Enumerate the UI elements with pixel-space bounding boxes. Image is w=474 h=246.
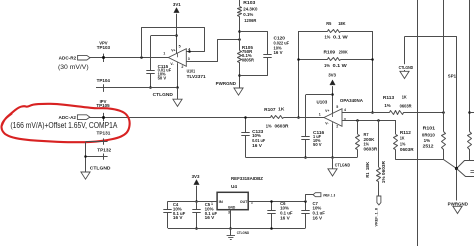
svg-text:1206R: 1206R	[244, 18, 257, 23]
wire feedback right rail	[372, 31, 374, 112]
svg-text:1K: 1K	[278, 107, 285, 112]
resistor R107	[271, 116, 284, 119]
svg-text:3: 3	[228, 211, 230, 215]
svg-text:PWRGND: PWRGND	[216, 81, 236, 86]
svg-text:CTLGND: CTLGND	[237, 230, 250, 235]
resistor shunt b	[468, 132, 472, 150]
resistor R103	[239, 0, 241, 6]
svg-text:TLV2371: TLV2371	[187, 74, 207, 79]
svg-text:R109: R109	[324, 50, 336, 55]
wire bottom rail	[168, 228, 306, 230]
node VREF_1_8 tag (horizontal)	[306, 195, 314, 202]
op-amp U103 OPA340NA	[324, 109, 342, 127]
wire SP1 ground tie	[405, 37, 457, 207]
capacitor C7	[305, 201, 307, 210]
svg-text:V+: V+	[325, 109, 329, 113]
svg-text:TP131: TP131	[97, 131, 112, 136]
svg-text:TP104: TP104	[97, 78, 111, 83]
capacitor C4	[167, 201, 169, 210]
node divider top	[238, 30, 241, 33]
annotation red circle	[2, 104, 130, 142]
svg-text:1%: 1%	[266, 124, 272, 129]
svg-text:R5: R5	[326, 21, 332, 26]
svg-text:R107: R107	[264, 107, 276, 112]
ground CTLGND right	[404, 37, 406, 72]
wire feedback left rail	[298, 31, 300, 117]
ground CTLGND U101	[177, 88, 179, 100]
svg-text:5: 5	[179, 44, 181, 48]
wire tp ground drop	[85, 142, 87, 172]
svg-text:0805R: 0805R	[242, 57, 255, 62]
wire U4 output rail	[248, 201, 305, 203]
svg-text:16 V: 16 V	[205, 215, 215, 220]
wire IPV row (ADC-A2 to U103 output)	[89, 117, 271, 119]
capacitor C5	[196, 201, 198, 210]
svg-text:(166 mV/A)+Offset 1.65V, COMP1: (166 mV/A)+Offset 1.65V, COMP1A	[10, 121, 118, 130]
svg-text:16 V: 16 V	[280, 215, 290, 220]
svg-text:16 V: 16 V	[252, 143, 262, 148]
svg-text:2: 2	[181, 65, 183, 69]
svg-text:0603R: 0603R	[400, 147, 415, 152]
svg-text:VREF_1_8: VREF_1_8	[323, 193, 335, 197]
svg-text:0603R: 0603R	[400, 104, 413, 109]
capacitor C123	[245, 117, 247, 133]
svg-text:U4: U4	[231, 184, 238, 189]
svg-text:1%: 1%	[325, 34, 331, 39]
svg-text:1% 0603R: 1% 0603R	[381, 161, 386, 183]
svg-text:24.3K0: 24.3K0	[243, 6, 258, 11]
svg-text:REF3318AIDBZ: REF3318AIDBZ	[231, 176, 263, 181]
resistor R105	[238, 51, 242, 63]
svg-text:VREF_1_8: VREF_1_8	[375, 208, 379, 227]
wire ADC-R2 output net	[90, 57, 169, 59]
wire U103 V- to ground rail	[332, 124, 334, 158]
svg-text:R101: R101	[423, 125, 436, 130]
svg-text:IN: IN	[219, 199, 223, 204]
wire ctlgnd rail U103	[246, 157, 358, 159]
wire U101 V- to ground rail	[177, 64, 179, 88]
svg-text:1%: 1%	[384, 103, 390, 108]
ground CTLGND U103	[332, 158, 334, 169]
svg-text:ADC-R2: ADC-R2	[59, 55, 77, 60]
svg-text:200K: 200K	[339, 50, 349, 55]
svg-text:ADC-A2: ADC-A2	[59, 115, 77, 120]
wire U4 gnd stub	[230, 210, 232, 228]
svg-text:OUT: OUT	[240, 199, 248, 204]
svg-text:1: 1	[163, 52, 165, 56]
svg-text:R103: R103	[243, 0, 256, 5]
wire vertical bus 3 / shunt R101b	[469, 0, 471, 132]
wire U103 pin4 feedback row	[342, 112, 390, 114]
svg-text:16 V: 16 V	[313, 215, 323, 220]
wire U103 pin3 row	[342, 120, 395, 122]
wire vertical bus 1	[417, 0, 419, 246]
svg-text:18K: 18K	[338, 21, 346, 26]
svg-text:(30 mV/V): (30 mV/V)	[58, 65, 89, 71]
svg-text:5: 5	[336, 105, 338, 109]
svg-text:1%: 1%	[400, 141, 406, 146]
resistor R101 (shunt a)	[442, 132, 446, 150]
testpoint TP105	[103, 113, 105, 121]
svg-text:V-: V-	[170, 62, 173, 66]
node ADC-A2 tag	[77, 115, 89, 120]
svg-text:R1: R1	[365, 172, 370, 178]
ground PWRGND shunt	[448, 201, 470, 207]
wire vertical bus 2 / shunt R101a	[443, 0, 445, 132]
svg-text:4: 4	[344, 108, 346, 112]
svg-text:4: 4	[188, 48, 190, 52]
svg-text:1K: 1K	[402, 95, 408, 100]
resistor R5	[299, 31, 328, 33]
svg-text:50 V: 50 V	[158, 75, 167, 80]
node ADC-R2 tag	[78, 55, 90, 60]
svg-text:0.1 W: 0.1 W	[333, 34, 349, 39]
wire R112 to shunt junction	[396, 160, 457, 169]
capacitor C116	[306, 94, 332, 96]
svg-text:0603R: 0603R	[275, 124, 290, 129]
svg-text:CTLGND: CTLGND	[90, 165, 111, 170]
svg-text:1%: 1%	[424, 138, 431, 143]
wire V+ bypass to C115	[151, 35, 177, 37]
testpoint TP103	[103, 54, 105, 62]
svg-text:18K: 18K	[365, 162, 370, 171]
resistor R109	[328, 58, 341, 61]
svg-text:TP103: TP103	[97, 45, 111, 50]
svg-text:1K: 1K	[400, 136, 405, 141]
svg-text:CTLGND: CTLGND	[399, 65, 414, 70]
resistor R1	[378, 120, 380, 167]
wire U101 pin 3 to divider	[187, 40, 240, 62]
node shunt junction	[455, 167, 458, 170]
svg-text:3: 3	[188, 57, 190, 61]
svg-text:0.1 W: 0.1 W	[333, 63, 348, 68]
node VREF_1_8 terminal (vertical)	[377, 196, 381, 205]
svg-text:V-: V-	[325, 121, 328, 125]
svg-text:1: 1	[319, 113, 321, 117]
capacitor C6	[271, 201, 273, 210]
svg-text:CTLGND: CTLGND	[335, 163, 350, 168]
svg-text:0R010: 0R010	[422, 133, 436, 138]
svg-text:SP1: SP1	[448, 74, 457, 79]
resistor R112	[395, 120, 397, 134]
svg-text:1%: 1%	[324, 63, 330, 68]
svg-text:3V3: 3V3	[328, 72, 336, 77]
wire U101 feedback loop (pin 4 to output node)	[140, 56, 143, 59]
svg-text:2: 2	[336, 124, 338, 128]
svg-text:U103: U103	[317, 99, 328, 104]
svg-text:3V1: 3V1	[173, 2, 181, 7]
ground CTLGND U4 (IEC)	[230, 228, 232, 236]
resistor R113	[390, 111, 404, 115]
wire ctlgnd rail U101	[96, 87, 177, 89]
wire shunt output taps	[457, 169, 474, 177]
wire shunt b to junction	[457, 161, 474, 169]
svg-text:0603R: 0603R	[364, 146, 379, 151]
svg-text:0.1%: 0.1%	[243, 12, 253, 17]
svg-text:3V3: 3V3	[192, 174, 200, 179]
svg-text:PWRGND: PWRGND	[448, 201, 468, 206]
svg-text:50 V: 50 V	[313, 142, 322, 147]
svg-text:CTLGND: CTLGND	[153, 92, 173, 97]
svg-text:2512: 2512	[423, 143, 435, 148]
svg-text:OPA340NA: OPA340NA	[340, 98, 364, 103]
svg-text:V+: V+	[171, 48, 175, 52]
capacitor C115	[150, 36, 152, 71]
resistor R7	[357, 120, 359, 134]
svg-text:R113: R113	[383, 95, 395, 100]
svg-text:R112: R112	[400, 130, 412, 135]
op-amp U101 TLV2371	[168, 49, 186, 67]
svg-text:GND: GND	[228, 205, 236, 210]
capacitor C120	[240, 32, 268, 55]
svg-text:2: 2	[251, 200, 253, 204]
svg-text:TP132: TP132	[97, 147, 112, 152]
wire U4 input rail	[168, 201, 217, 203]
svg-text:16 V: 16 V	[274, 50, 283, 55]
svg-text:U101: U101	[187, 69, 196, 74]
svg-text:16 V: 16 V	[173, 215, 183, 220]
